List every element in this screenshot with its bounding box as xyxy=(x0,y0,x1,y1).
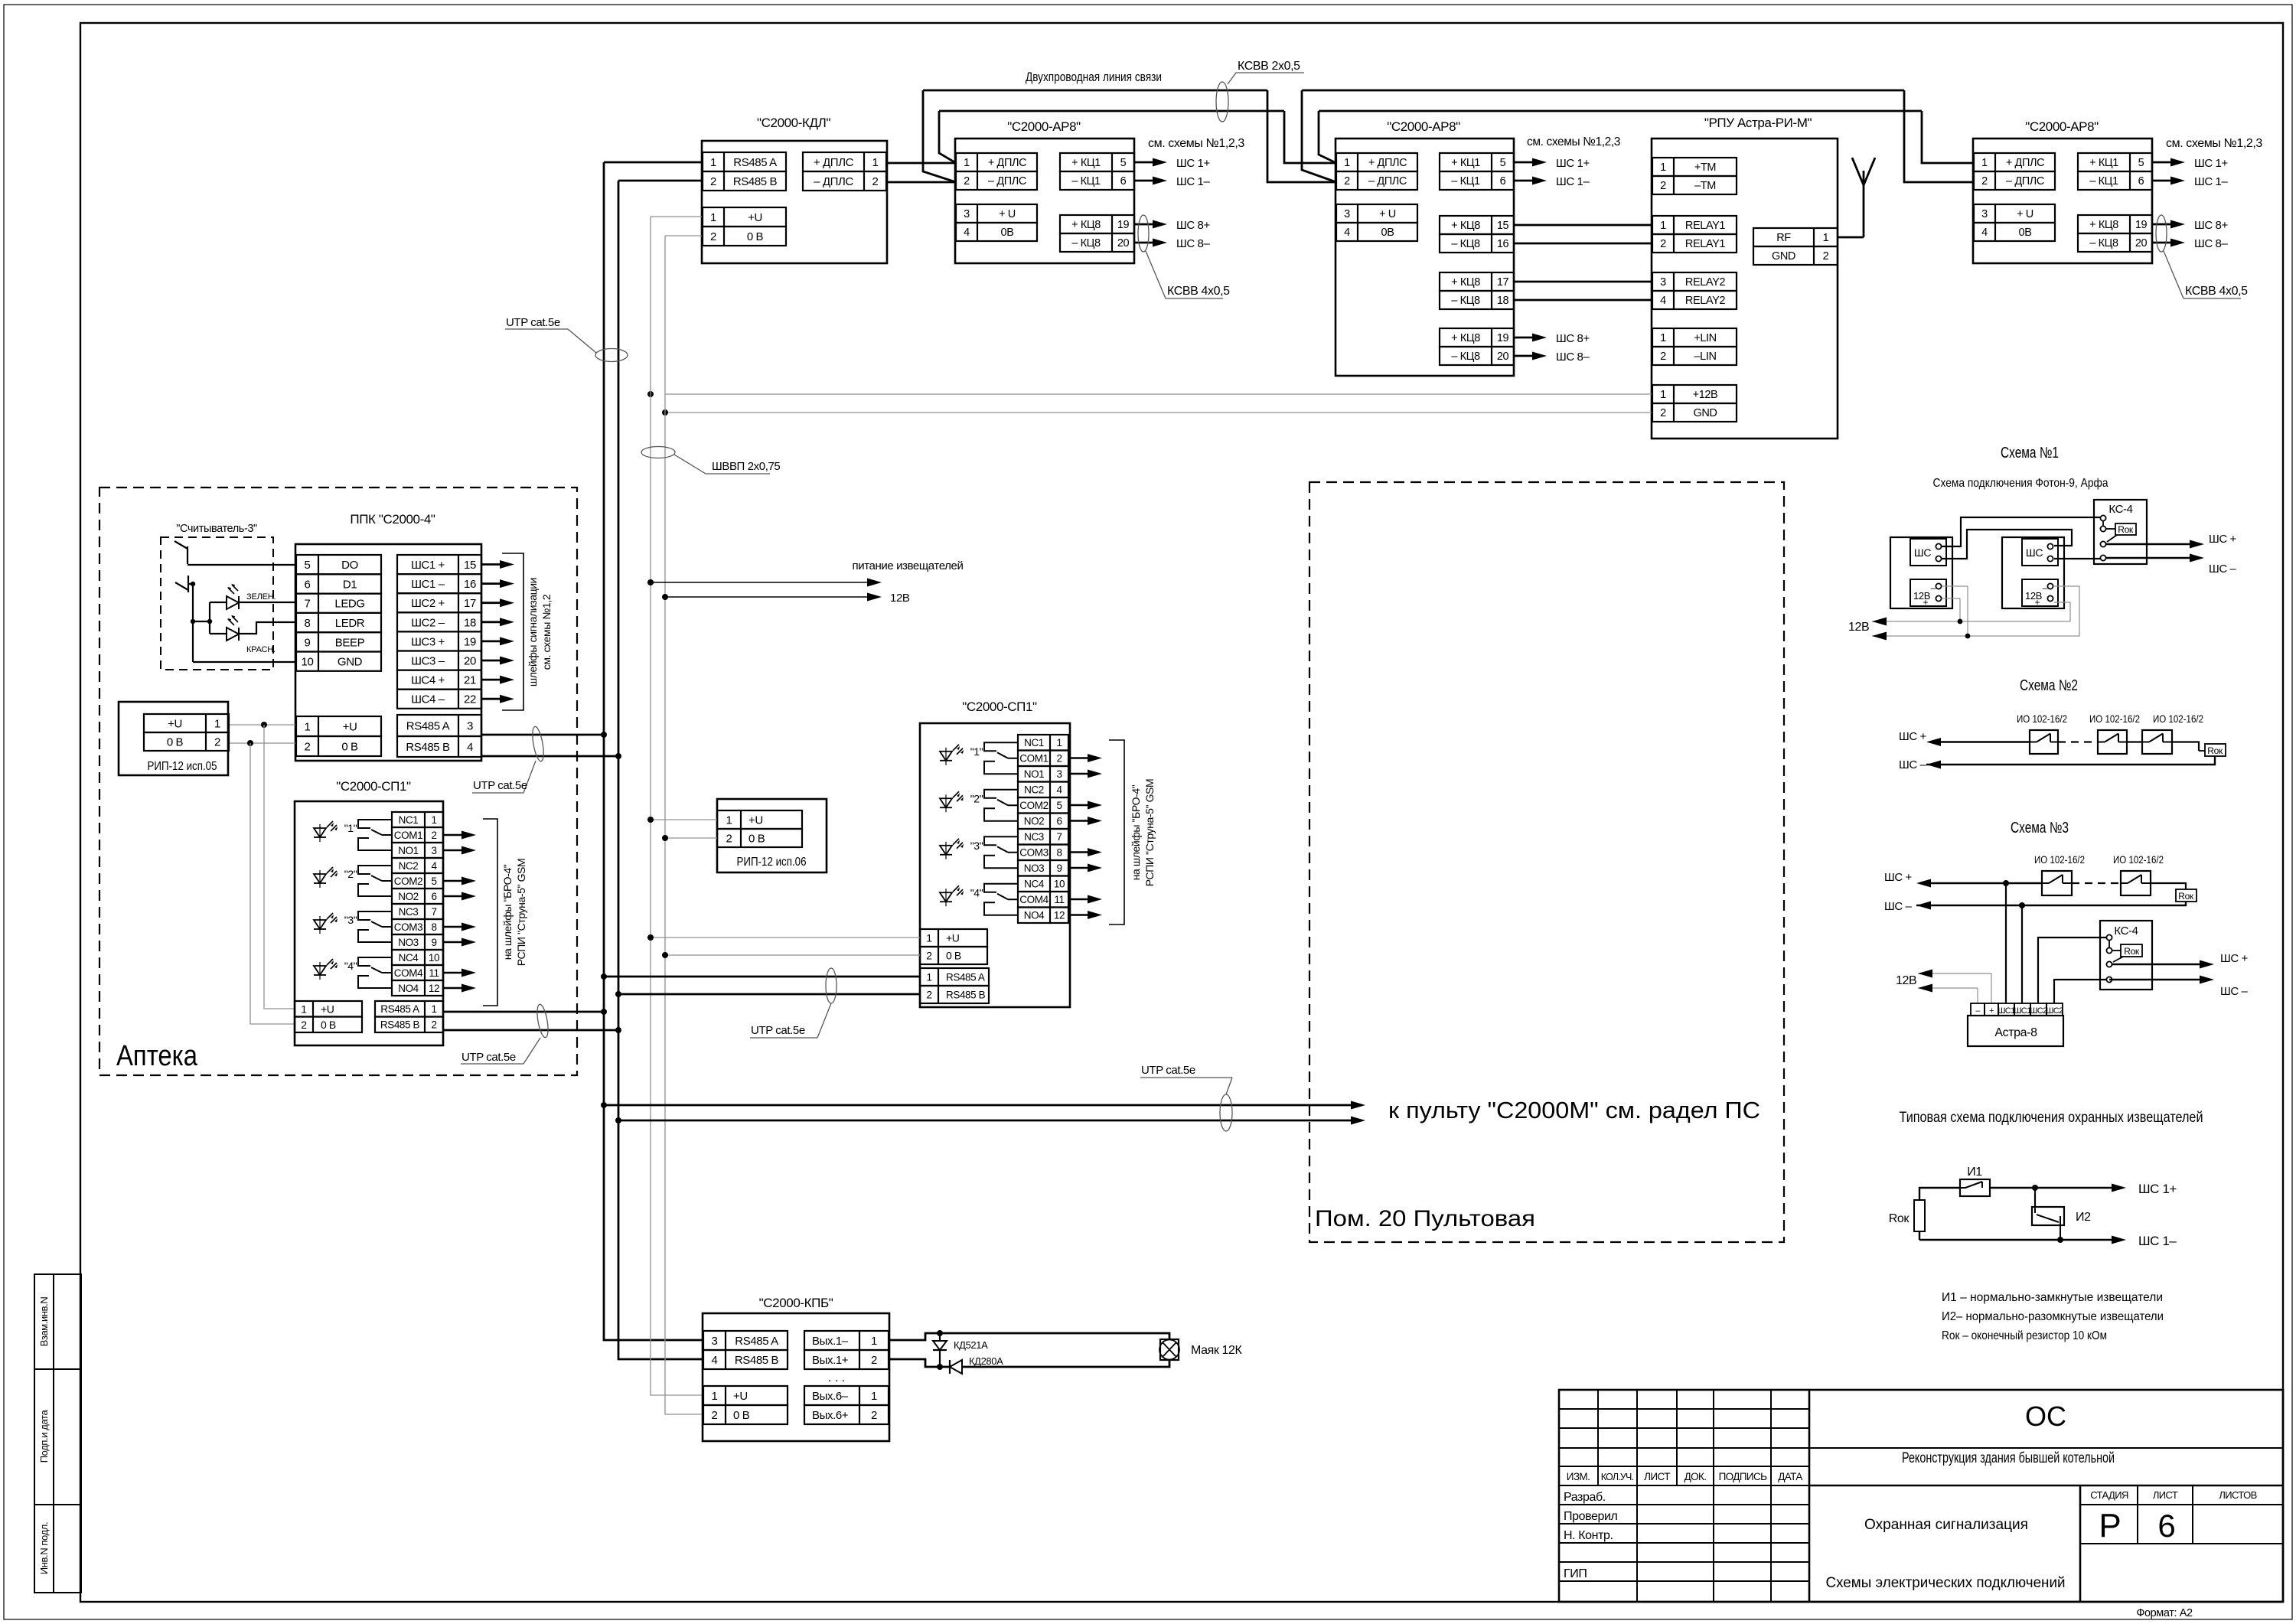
scheme3 wire ShS1b drop xyxy=(2021,905,2023,1003)
svg-text:"1": "1" xyxy=(344,822,357,834)
wire KDL plus DPLS to AP8 U2 pin1 xyxy=(887,162,956,165)
svg-text:"4": "4" xyxy=(344,960,357,972)
svg-text:Схемы электрических подключени: Схемы электрических подключений xyxy=(1826,1575,2066,1591)
svg-text:RS485 A: RS485 A xyxy=(946,971,985,983)
svg-text:2: 2 xyxy=(431,830,436,841)
wire RIP05 +U to C2000-4 xyxy=(228,724,295,726)
svg-text:4: 4 xyxy=(1056,784,1062,796)
svg-text:2: 2 xyxy=(1981,175,1988,188)
AP8 U2 terminals DPLS xyxy=(956,153,1037,171)
svg-text:20: 20 xyxy=(464,654,476,667)
KPB terminals Out6 xyxy=(804,1386,889,1405)
svg-text:4: 4 xyxy=(1981,227,1988,239)
svg-text:COM4: COM4 xyxy=(1019,894,1049,905)
svg-text:Rок: Rок xyxy=(2124,946,2140,957)
svg-text:12В: 12В xyxy=(1896,974,1916,987)
svg-text:–: – xyxy=(2043,582,2048,593)
svg-text:КСВВ 4х0,5: КСВВ 4х0,5 xyxy=(2185,285,2248,298)
svg-text:"4": "4" xyxy=(970,886,983,898)
svg-text:1: 1 xyxy=(926,971,931,983)
SP1 left relay group 1 LED xyxy=(314,828,326,837)
svg-text:ШС +: ШС + xyxy=(2209,533,2237,546)
svg-text:2: 2 xyxy=(1823,250,1829,263)
svg-text:Разраб.: Разраб. xyxy=(1564,1491,1606,1504)
scheme2 ShS+ line xyxy=(1939,741,2030,742)
SP1 middle relay group 3 LED xyxy=(940,846,952,855)
svg-text:+ ДПЛС: + ДПЛС xyxy=(2006,157,2044,169)
SP1 left output arrows xyxy=(443,834,464,836)
svg-text:6: 6 xyxy=(1500,175,1506,188)
svg-text:D1: D1 xyxy=(343,578,357,591)
AP8 U3 terminals DPLS xyxy=(1336,153,1417,171)
SP1 middle relay group 2 contacts xyxy=(984,790,1018,798)
svg-text:RF: RF xyxy=(1776,232,1791,244)
SP1 left relay group 2 contacts xyxy=(358,866,392,874)
scheme3 dashed link xyxy=(2072,882,2121,884)
svg-text:Реконструкция здания бывшей ко: Реконструкция здания бывшей котельной xyxy=(1902,1450,2115,1466)
svg-text:2: 2 xyxy=(431,1019,436,1031)
SP1 middle relay group 3 contacts xyxy=(984,836,1018,845)
svg-text:17: 17 xyxy=(464,597,476,610)
svg-text:1: 1 xyxy=(1823,232,1829,244)
KDL terminals RS485 xyxy=(703,152,786,171)
SP1 left relay group 2 LED xyxy=(314,874,326,883)
svg-text:РСПИ "Струна-5" GSM: РСПИ "Струна-5" GSM xyxy=(515,859,527,967)
svg-text:1: 1 xyxy=(1660,332,1666,344)
svg-text:см. схемы №1,2,3: см. схемы №1,2,3 xyxy=(2166,137,2262,150)
RIP05 terminals xyxy=(144,714,229,732)
svg-text:– КЦ1: – КЦ1 xyxy=(1071,175,1101,188)
svg-text:1: 1 xyxy=(872,156,879,169)
scheme3 ShS- line xyxy=(1916,902,2186,905)
svg-text:ШС2: ШС2 xyxy=(2030,1006,2047,1016)
detector IO 102-16/2 switch S5 xyxy=(2121,871,2151,895)
svg-text:ШС1 –: ШС1 – xyxy=(411,578,445,591)
svg-text:3: 3 xyxy=(1660,276,1666,289)
svg-text:"C2000-СП1": "C2000-СП1" xyxy=(962,699,1037,714)
svg-text:21: 21 xyxy=(464,674,476,687)
detector IO 102-16/2 switch S4 xyxy=(2042,871,2072,895)
svg-text:+ КЦ1: + КЦ1 xyxy=(1071,157,1101,169)
svg-text:Схема №3: Схема №3 xyxy=(2011,820,2069,836)
scheme1 detector D1 12V terminal xyxy=(1910,579,1946,606)
svg-text:NC3: NC3 xyxy=(399,906,419,918)
svg-text:+U: +U xyxy=(748,211,762,224)
wire C2000-4 RS485B to trunk xyxy=(481,755,618,758)
svg-text:3: 3 xyxy=(431,845,436,856)
svg-text:2: 2 xyxy=(1056,753,1062,765)
cable marker ShVVP 2x0.75 xyxy=(641,447,675,458)
svg-text:"3": "3" xyxy=(344,914,357,926)
wire DPLS bus2 plus segment A xyxy=(939,110,1284,113)
svg-text:+U: +U xyxy=(168,717,182,730)
svg-text:Н. Контр.: Н. Контр. xyxy=(1564,1529,1613,1542)
svg-text:ШС 1+: ШС 1+ xyxy=(2138,1182,2177,1196)
svg-text:16: 16 xyxy=(1497,238,1509,250)
SP1 middle bracket xyxy=(1109,740,1124,925)
svg-text:1: 1 xyxy=(1981,157,1988,169)
svg-text:7: 7 xyxy=(431,906,436,918)
svg-text:NO1: NO1 xyxy=(1024,768,1045,780)
svg-text:– ДПЛС: – ДПЛС xyxy=(1368,175,1407,188)
svg-text:DO: DO xyxy=(341,559,358,572)
svg-text:4: 4 xyxy=(712,1354,718,1367)
svg-text:2: 2 xyxy=(872,175,879,188)
wire SP1 middle +U xyxy=(651,937,920,938)
cable marker UTP C2000-4 xyxy=(530,726,546,761)
svg-text:UTP cat.5e: UTP cat.5e xyxy=(1141,1064,1195,1077)
svg-text:"2": "2" xyxy=(970,792,983,804)
svg-text:8: 8 xyxy=(1056,847,1062,859)
svg-text:КСВВ 4х0,5: КСВВ 4х0,5 xyxy=(1167,285,1230,298)
svg-text:к пульту "C2000М" см. радел ПС: к пульту "C2000М" см. радел ПС xyxy=(1388,1097,1760,1123)
wire bus1 drop to AP8 U5 pin2 xyxy=(1904,90,1974,182)
dashed zone Pom.20 Pultovaya xyxy=(1309,482,1784,1242)
svg-text:9: 9 xyxy=(431,937,436,948)
svg-text:ГИП: ГИП xyxy=(1564,1567,1587,1580)
svg-text:2: 2 xyxy=(964,175,970,188)
svg-text:Rок: Rок xyxy=(2207,745,2223,756)
svg-text:"РПУ Астра-РИ-М": "РПУ Астра-РИ-М" xyxy=(1704,116,1812,130)
svg-text:+ КЦ1: + КЦ1 xyxy=(2089,157,2118,169)
SP1 left relay group 3 LED xyxy=(314,920,326,929)
svg-text:+ ДПЛС: + ДПЛС xyxy=(1368,157,1407,169)
svg-text:11: 11 xyxy=(1054,894,1064,905)
scheme1 KS-4 Rok resistor xyxy=(2115,523,2136,535)
svg-text:+ КЦ8: + КЦ8 xyxy=(1451,276,1480,289)
svg-text:+: + xyxy=(1923,597,1928,608)
svg-text:Проверил: Проверил xyxy=(1564,1510,1618,1523)
svg-text:2: 2 xyxy=(1660,407,1666,419)
scheme1 output ShS+ xyxy=(2106,543,2192,545)
svg-text:ШС +: ШС + xyxy=(1899,730,1927,743)
svg-text:ШС 1–: ШС 1– xyxy=(2138,1234,2177,1248)
SP1 left relay group 4 LED xyxy=(314,966,326,975)
wire AP8 U3 KC8-15 to RPU RELAY1.1 xyxy=(1514,224,1652,227)
svg-text:Типовая схема подключения охра: Типовая схема подключения охранных извещ… xyxy=(1900,1110,2203,1126)
reader contact 2 xyxy=(175,576,193,592)
svg-text:19: 19 xyxy=(1497,332,1509,344)
SP1 left relay group 4 contacts xyxy=(358,957,392,966)
detector IO 102-16/2 switch S2 xyxy=(2098,730,2127,754)
lamp Mayak 12K xyxy=(1160,1339,1179,1360)
svg-text:2: 2 xyxy=(710,175,716,188)
SP1 middle terminals power xyxy=(920,929,987,947)
svg-text:2: 2 xyxy=(871,1354,877,1367)
C2000-4 left terminals 5-10 xyxy=(296,555,381,574)
svg-text:2: 2 xyxy=(1344,175,1350,188)
svg-text:1: 1 xyxy=(726,814,732,827)
scheme2 ShS- line xyxy=(1926,756,2215,765)
svg-text:16: 16 xyxy=(464,578,476,591)
svg-text:РИП-12 исп.05: РИП-12 исп.05 xyxy=(148,760,217,773)
svg-text:"Считыватель-3": "Считыватель-3" xyxy=(176,523,257,535)
svg-text:2: 2 xyxy=(726,832,732,845)
title block stamp xyxy=(1559,1390,2283,1602)
AP8 U2 terminals power xyxy=(956,204,1037,223)
RPU antenna xyxy=(1838,236,1864,239)
svg-text:И1: И1 xyxy=(1967,1166,1982,1179)
svg-text:Охранная сигнализация: Охранная сигнализация xyxy=(1864,1517,2028,1533)
svg-text:КС-4: КС-4 xyxy=(2108,503,2132,516)
svg-text:3: 3 xyxy=(467,719,473,732)
svg-text:3: 3 xyxy=(964,208,970,220)
svg-text:2: 2 xyxy=(926,950,932,962)
svg-text:см. схемы №1,2,3: см. схемы №1,2,3 xyxy=(1527,135,1620,148)
svg-text:0В: 0В xyxy=(1001,227,1014,239)
wire DPLS bus2 segment B xyxy=(1319,110,1922,113)
scheme1 wire dev2 ShS2 to KS-4 xyxy=(2054,558,2100,559)
svg-text:12В: 12В xyxy=(1848,621,1869,634)
AP8 U3 terminals KC8 15-16 xyxy=(1440,216,1514,234)
scheme3 12V arrows xyxy=(1918,973,1991,974)
svg-text:Rок – оконечный резистор 10 кО: Rок – оконечный резистор 10 кОм xyxy=(1942,1329,2107,1342)
svg-text:NO1: NO1 xyxy=(398,845,419,856)
wire bus2 drop to AP8 U5 pin1 xyxy=(1922,111,1974,163)
AP8 U5 output arrows ShS1 xyxy=(2152,161,2173,164)
svg-text:ШС1: ШС1 xyxy=(1998,1006,2015,1016)
svg-text:UTP cat.5e: UTP cat.5e xyxy=(506,316,560,329)
wire bus2 drop to AP8 U2 pin1 xyxy=(939,111,956,163)
svg-text:+ КЦ8: + КЦ8 xyxy=(1451,220,1480,232)
AP8 U3 terminals KC1 xyxy=(1440,153,1514,171)
RPU terminals RELAY2 xyxy=(1652,272,1737,291)
wire KDL RS485A to trunk xyxy=(604,161,702,164)
svg-text:КД521А: КД521А xyxy=(954,1339,988,1351)
svg-text:18: 18 xyxy=(464,616,476,629)
svg-text:ОС: ОС xyxy=(2025,1401,2066,1432)
svg-text:Схема подключения Фотон-9, Арф: Схема подключения Фотон-9, Арфа xyxy=(1933,477,2108,490)
svg-text:RS485 B: RS485 B xyxy=(406,741,450,754)
svg-text:"1": "1" xyxy=(970,745,983,758)
svg-text:Rок: Rок xyxy=(2178,891,2194,902)
SP1 middle relay group 1 LED xyxy=(940,752,952,761)
svg-text:– КЦ8: – КЦ8 xyxy=(1071,237,1101,249)
scheme3 wire KS-4 c1 to ShS2a xyxy=(2038,938,2106,1003)
scheme3 wire ShS1a drop xyxy=(2005,883,2007,1003)
diode VD1 KD521A xyxy=(939,1333,941,1367)
svg-text:2: 2 xyxy=(1660,238,1666,250)
svg-text:ШС 1–: ШС 1– xyxy=(1556,175,1590,188)
scheme1 detector D1 box xyxy=(1890,537,1952,608)
C2000-4 loops bracket xyxy=(502,553,523,710)
AP8 U5 output arrows ShS8 xyxy=(2152,223,2173,226)
svg-text:ШС +: ШС + xyxy=(2220,952,2249,965)
svg-text:+ КЦ1: + КЦ1 xyxy=(1451,157,1480,169)
AP8 U2 terminals KC8 xyxy=(1060,215,1134,233)
svg-text:– КЦ8: – КЦ8 xyxy=(1451,351,1480,363)
wire C2000-4 RS485A to trunk xyxy=(481,734,604,736)
KPB terminals Out1 xyxy=(804,1331,889,1350)
SP1 middle relay group 1 contacts xyxy=(984,742,1018,751)
svg-text:+ U: + U xyxy=(999,208,1016,220)
svg-text:ИО 102-16/2: ИО 102-16/2 xyxy=(2017,713,2067,725)
svg-text:17: 17 xyxy=(1497,276,1509,289)
svg-text:И1 – нормально-замкнутые извещ: И1 – нормально-замкнутые извещатели xyxy=(1942,1291,2163,1304)
svg-text:NC1: NC1 xyxy=(399,814,419,826)
svg-text:КД280А: КД280А xyxy=(969,1355,1003,1367)
svg-text:COM2: COM2 xyxy=(1019,800,1048,811)
svg-text:ДОК.: ДОК. xyxy=(1684,1471,1707,1482)
svg-text:2: 2 xyxy=(214,735,220,748)
svg-text:11: 11 xyxy=(429,967,439,979)
svg-text:COM3: COM3 xyxy=(394,921,422,933)
svg-text:– ДПЛС: – ДПЛС xyxy=(988,175,1026,188)
svg-text:NC2: NC2 xyxy=(1024,784,1044,796)
wire power trunk 0V vertical xyxy=(665,236,703,1414)
svg-text:+: + xyxy=(1989,1006,1994,1016)
svg-text:на шлейфы "БРО-4": на шлейфы "БРО-4" xyxy=(501,864,514,960)
KDL terminals power xyxy=(703,207,786,227)
svg-text:1: 1 xyxy=(1660,161,1666,174)
svg-text:+U: +U xyxy=(343,720,357,733)
svg-text:питание извещателей: питание извещателей xyxy=(853,559,964,572)
svg-text:NC4: NC4 xyxy=(399,952,419,964)
svg-text:+ U: + U xyxy=(2017,208,2033,220)
svg-text:19: 19 xyxy=(2135,219,2148,231)
RPU RF terminal box xyxy=(1753,228,1838,246)
svg-text:12: 12 xyxy=(1054,910,1065,921)
svg-text:9: 9 xyxy=(1056,863,1062,874)
cable marker UTP SP1 middle xyxy=(826,968,837,1003)
svg-text:BEEP: BEEP xyxy=(335,636,365,649)
svg-text:18: 18 xyxy=(1497,295,1509,307)
AP8 U3 terminals KC8 17-18 xyxy=(1440,272,1514,291)
svg-text:LEDR: LEDR xyxy=(335,617,365,630)
svg-text:см. схемы №1,2: см. схемы №1,2 xyxy=(540,594,553,670)
svg-text:. . .: . . . xyxy=(828,1371,845,1384)
svg-text:ШС4 –: ШС4 – xyxy=(411,693,445,706)
svg-text:GND: GND xyxy=(338,656,363,669)
svg-text:RELAY1: RELAY1 xyxy=(1685,220,1725,232)
svg-text:COM4: COM4 xyxy=(394,967,423,979)
wire RS485A trunk vertical xyxy=(604,162,703,1340)
typical scheme detector I1 xyxy=(1960,1179,1990,1196)
svg-text:Схема №2: Схема №2 xyxy=(2020,677,2078,694)
svg-text:КРАСН.: КРАСН. xyxy=(246,645,276,654)
scheme1 detector D2 12V terminal xyxy=(2022,579,2058,606)
svg-text:+U: +U xyxy=(946,932,960,944)
svg-text:1: 1 xyxy=(964,157,970,169)
svg-text:"C2000-КДЛ": "C2000-КДЛ" xyxy=(757,116,830,130)
AP8 U5 terminals KC8 xyxy=(2078,215,2152,233)
detector IO 102-16/2 switch S1 xyxy=(2030,730,2058,754)
svg-text:+ КЦ8: + КЦ8 xyxy=(2089,219,2118,231)
svg-text:ШС –: ШС – xyxy=(1884,900,1913,913)
svg-text:2: 2 xyxy=(712,1409,718,1422)
svg-text:ИО 102-16/2: ИО 102-16/2 xyxy=(2034,853,2085,866)
wire to C2000M console A xyxy=(604,1104,1353,1107)
svg-text:4: 4 xyxy=(431,860,437,872)
svg-text:2: 2 xyxy=(301,1019,307,1031)
svg-text:РИП-12 исп.06: РИП-12 исп.06 xyxy=(737,856,807,869)
AP8 U5 terminals KC1 xyxy=(2078,153,2152,171)
svg-text:5: 5 xyxy=(2138,157,2144,169)
svg-text:6: 6 xyxy=(1120,175,1127,188)
svg-text:3: 3 xyxy=(712,1335,718,1348)
KPB terminals power xyxy=(703,1386,788,1405)
svg-text:+ КЦ8: + КЦ8 xyxy=(1071,219,1101,231)
svg-text:7: 7 xyxy=(305,598,311,611)
svg-text:+12В: +12В xyxy=(1693,389,1718,401)
svg-text:ШС2: ШС2 xyxy=(2046,1006,2063,1016)
svg-text:NC1: NC1 xyxy=(1024,737,1044,748)
svg-text:– КЦ8: – КЦ8 xyxy=(1451,238,1480,250)
KPB terminals RS485 xyxy=(703,1331,788,1350)
svg-text:6: 6 xyxy=(305,578,311,591)
RPU terminals RELAY1 xyxy=(1652,216,1737,234)
typical Rok resistor xyxy=(1919,1188,1960,1200)
svg-text:Схема №1: Схема №1 xyxy=(2001,445,2059,461)
svg-text:ШС3 +: ШС3 + xyxy=(411,635,445,648)
C2000-4 right terminals RS485 xyxy=(397,715,481,736)
svg-text:ШС 1–: ШС 1– xyxy=(1176,175,1210,188)
svg-text:– КЦ1: – КЦ1 xyxy=(1451,175,1480,188)
svg-text:NO4: NO4 xyxy=(398,983,419,994)
SP1 left terminals RS485 xyxy=(375,1001,443,1017)
svg-text:–LIN: –LIN xyxy=(1694,351,1716,363)
scheme1 KS-4 box xyxy=(2094,500,2147,564)
AP8 U3 terminals power xyxy=(1336,204,1417,223)
svg-text:0 В: 0 В xyxy=(167,735,184,748)
wire SP1 left RS485A to trunk xyxy=(444,1011,604,1013)
wire bus2 segA drop to AP8 U3 pin1 xyxy=(1284,111,1336,163)
svg-text:7: 7 xyxy=(1056,831,1062,843)
svg-text:– КЦ1: – КЦ1 xyxy=(2089,175,2118,188)
svg-text:– КЦ8: – КЦ8 xyxy=(1451,295,1480,307)
RPU terminals LIN xyxy=(1652,328,1737,347)
svg-text:на шлейфы "БРО-4": на шлейфы "БРО-4" xyxy=(1130,784,1142,880)
svg-text:ДАТА: ДАТА xyxy=(1778,1471,1802,1482)
svg-text:"C2000-КПБ": "C2000-КПБ" xyxy=(759,1296,833,1310)
LED red xyxy=(227,628,239,641)
svg-text:+ КЦ8: + КЦ8 xyxy=(1451,332,1480,344)
cable marker UTP trunk upper xyxy=(595,349,628,362)
svg-text:20: 20 xyxy=(1117,237,1130,249)
svg-text:1: 1 xyxy=(926,932,932,944)
typical wire top ShS1+ xyxy=(1990,1187,2114,1189)
wire KDL minus DPLS to AP8 U2 pin2 xyxy=(887,181,956,184)
wire RPU GND to power bus xyxy=(666,412,1652,413)
svg-text:см. схемы №1,2,3: см. схемы №1,2,3 xyxy=(1148,137,1244,150)
svg-text:NO2: NO2 xyxy=(398,891,419,902)
svg-text:5: 5 xyxy=(1056,800,1062,811)
svg-text:ШС 1+: ШС 1+ xyxy=(2194,157,2228,170)
block PPK C2000-4 box xyxy=(295,544,481,761)
diode VD2 KD280A xyxy=(950,1360,962,1374)
scheme1 wire dev1 ShS1 to KS-4 xyxy=(1942,517,2100,546)
scheme1 detector D1 ShS terminal xyxy=(1910,539,1946,566)
wire AP8 U3 KC8-16 to RPU RELAY1.2 xyxy=(1514,243,1652,245)
svg-text:ШС +: ШС + xyxy=(1884,871,1913,884)
svg-text:1: 1 xyxy=(712,1390,718,1403)
svg-text:ЛИСТ: ЛИСТ xyxy=(1644,1471,1670,1482)
svg-text:ШС –: ШС – xyxy=(1899,758,1927,771)
dashed box reader Schityvatel-3 xyxy=(161,537,273,670)
reader contact 1 xyxy=(174,541,188,564)
svg-text:1: 1 xyxy=(214,717,220,730)
svg-text:ШС 1+: ШС 1+ xyxy=(1176,157,1210,170)
wire AP8 U3 KC8-18 to RPU RELAY2.4 xyxy=(1514,299,1652,302)
svg-text:6: 6 xyxy=(1056,816,1062,827)
svg-text:10: 10 xyxy=(429,952,439,964)
AP8 U3 output arrows ShS8 xyxy=(1514,337,1534,339)
svg-text:– КЦ8: – КЦ8 xyxy=(2089,237,2118,249)
svg-text:22: 22 xyxy=(464,693,476,706)
cable marker KSVV 2x0.5 xyxy=(1216,82,1228,122)
RPU terminals 12V power xyxy=(1652,385,1737,403)
svg-text:Подп.и дата: Подп.и дата xyxy=(38,1410,50,1463)
